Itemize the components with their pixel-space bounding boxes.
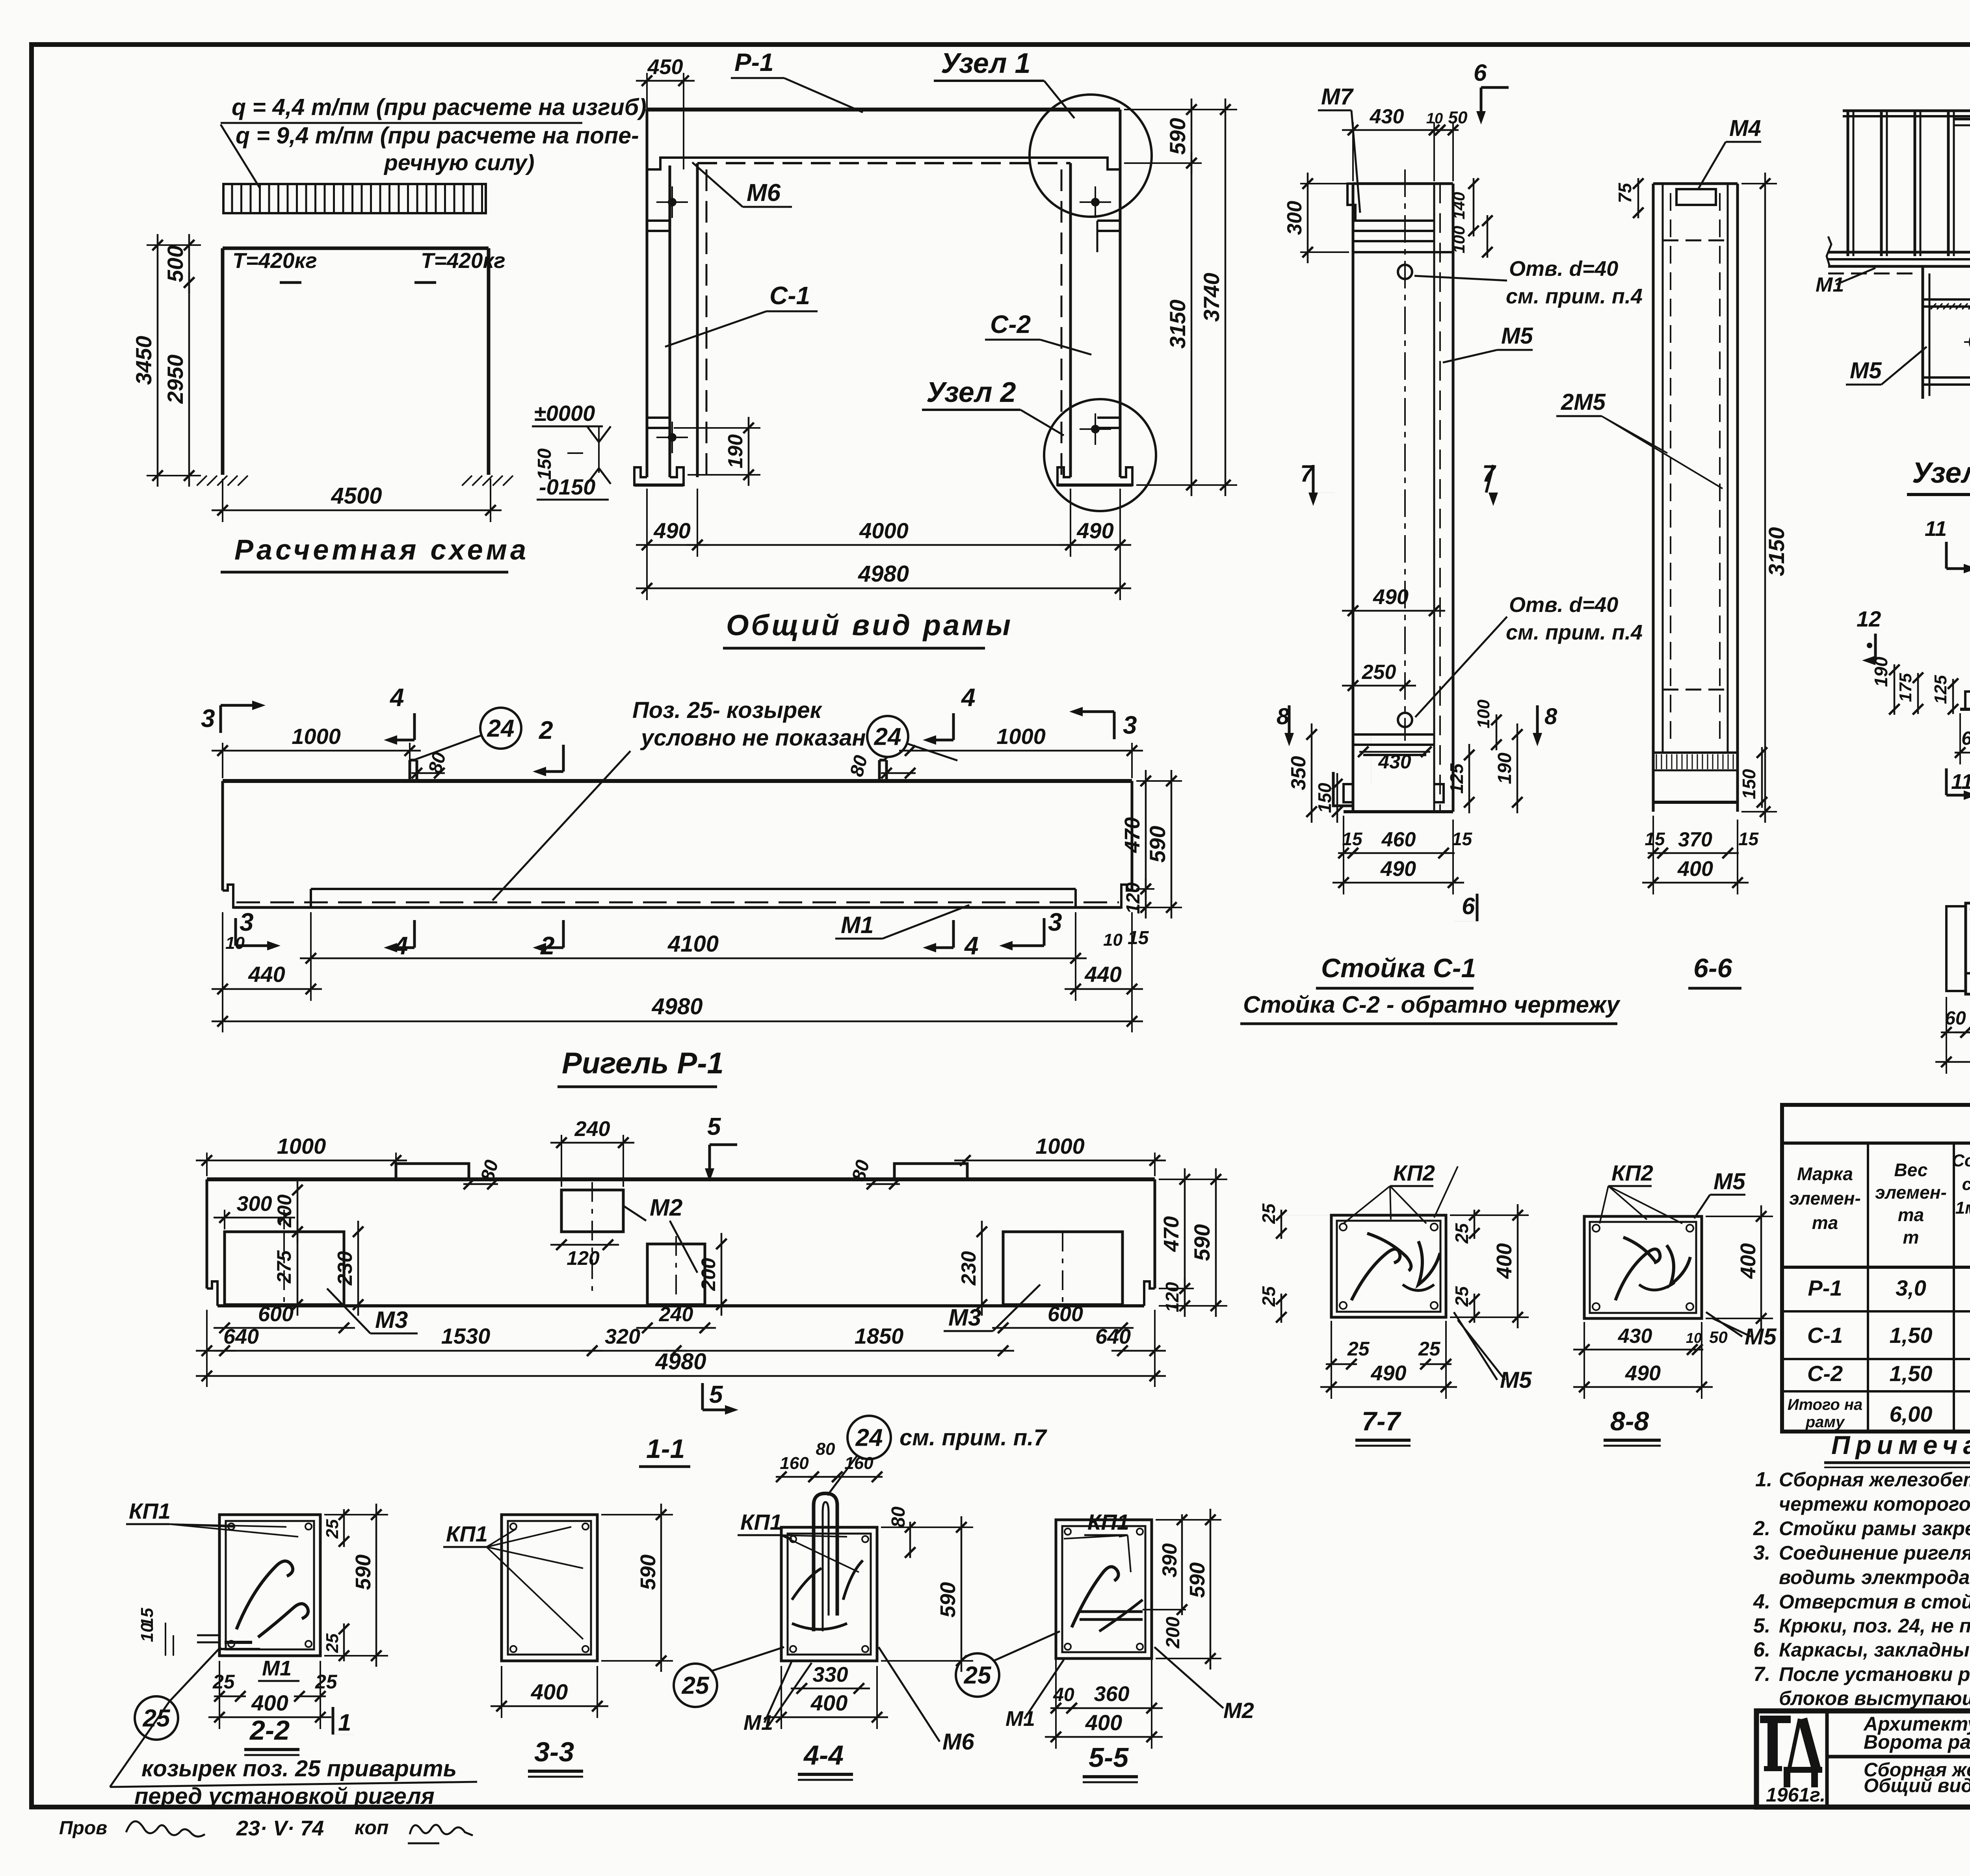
svg-text:60: 60 — [1961, 728, 1970, 749]
svg-text:160: 160 — [844, 1454, 873, 1473]
svg-text:М3: М3 — [375, 1307, 408, 1333]
svg-text:590: 590 — [351, 1554, 375, 1590]
svg-text:М1: М1 — [841, 912, 873, 938]
svg-text:80: 80 — [816, 1439, 835, 1459]
svg-text:490: 490 — [1625, 1361, 1661, 1385]
svg-text:400: 400 — [1085, 1710, 1122, 1735]
svg-text:6,00: 6,00 — [1890, 1402, 1933, 1426]
svg-text:640: 640 — [1095, 1325, 1131, 1348]
svg-text:т: т — [1903, 1227, 1919, 1248]
svg-text:КП1: КП1 — [740, 1510, 782, 1534]
svg-text:Сборная железобетонная рама: Сборная железобетонная рама проема устан… — [1779, 1469, 1970, 1491]
svg-text:390: 390 — [1158, 1543, 1181, 1578]
svg-text:Примечания: Примечания — [1831, 1430, 1970, 1460]
svg-text:М1: М1 — [262, 1657, 292, 1680]
svg-text:1,50: 1,50 — [1890, 1323, 1933, 1348]
svg-text:430: 430 — [1618, 1325, 1652, 1348]
svg-text:4980: 4980 — [655, 1349, 706, 1374]
svg-text:КП2: КП2 — [1611, 1160, 1653, 1185]
svg-text:8-8: 8-8 — [1610, 1406, 1649, 1436]
svg-text:см. прим. п.4: см. прим. п.4 — [1506, 284, 1643, 308]
svg-text:чертежи которого даются в: чертежи которого даются в составе проект… — [1779, 1493, 1970, 1515]
svg-text:7: 7 — [1482, 460, 1496, 487]
svg-text:200: 200 — [273, 1194, 295, 1228]
svg-text:Пров: Пров — [59, 1818, 107, 1839]
svg-text:2: 2 — [539, 716, 553, 744]
svg-text:4: 4 — [389, 683, 404, 712]
svg-text:6-6: 6-6 — [1693, 953, 1732, 983]
svg-text:590: 590 — [636, 1554, 660, 1590]
svg-text:120: 120 — [567, 1247, 600, 1269]
svg-text:600: 600 — [1048, 1302, 1083, 1326]
svg-text:2.: 2. — [1753, 1517, 1770, 1540]
svg-text:430: 430 — [1378, 751, 1411, 773]
svg-text:490: 490 — [1373, 585, 1409, 609]
svg-text:Содержан.: Содержан. — [1952, 1151, 1970, 1170]
svg-text:1961г.: 1961г. — [1766, 1784, 1825, 1806]
svg-text:24: 24 — [487, 715, 515, 742]
svg-text:С-2: С-2 — [990, 310, 1031, 338]
svg-text:150: 150 — [534, 448, 555, 480]
svg-text:Итого на: Итого на — [1788, 1396, 1863, 1413]
svg-text:430: 430 — [1370, 105, 1404, 128]
svg-text:Крюки, поз. 24, не предназнач: Крюки, поз. 24, не предназначены для уст… — [1779, 1615, 1970, 1637]
svg-text:раму: раму — [1805, 1413, 1845, 1431]
svg-text:500: 500 — [163, 245, 188, 282]
svg-text:400: 400 — [1492, 1243, 1516, 1279]
svg-text:1-1: 1-1 — [646, 1434, 685, 1464]
svg-text:5.: 5. — [1753, 1614, 1770, 1637]
svg-text:25: 25 — [315, 1671, 338, 1693]
svg-text:М7: М7 — [1321, 84, 1354, 110]
svg-text:230: 230 — [334, 1251, 357, 1286]
svg-text:Стойки рамы закрепляются при: Стойки рамы закрепляются при помощи анке… — [1779, 1517, 1970, 1539]
svg-text:240: 240 — [574, 1117, 610, 1141]
svg-text:М3: М3 — [948, 1304, 981, 1331]
svg-text:Р-1: Р-1 — [734, 48, 774, 76]
svg-text:250: 250 — [1362, 661, 1396, 684]
svg-text:М2: М2 — [650, 1194, 682, 1221]
svg-text:Расчетная схема: Расчетная схема — [234, 534, 529, 566]
svg-text:q = 9,4 т/пм (при расчете на п: q = 9,4 т/пм (при расчете на попе- — [236, 123, 639, 149]
svg-text:25: 25 — [1258, 1203, 1279, 1224]
svg-text:6: 6 — [1474, 59, 1487, 86]
svg-text:элемен-: элемен- — [1789, 1188, 1861, 1209]
svg-text:см. прим. п.4: см. прим. п.4 — [1506, 621, 1643, 644]
svg-text:Т=420кг: Т=420кг — [421, 248, 506, 273]
svg-text:15: 15 — [1738, 829, 1759, 849]
svg-text:перед установкой ригеля: перед установкой ригеля — [134, 1783, 435, 1809]
svg-text:Узел 2: Узел 2 — [926, 377, 1016, 408]
svg-text:М5: М5 — [1714, 1169, 1745, 1194]
svg-text:360: 360 — [1094, 1682, 1129, 1706]
svg-text:75: 75 — [1615, 182, 1635, 203]
svg-text:Отв. d=40: Отв. d=40 — [1509, 257, 1618, 281]
svg-text:6: 6 — [1462, 893, 1475, 919]
svg-text:3.: 3. — [1753, 1541, 1770, 1564]
svg-text:8: 8 — [1277, 704, 1290, 729]
svg-text:М5: М5 — [1501, 323, 1533, 349]
svg-text:175: 175 — [1896, 673, 1915, 702]
svg-text:25: 25 — [1347, 1338, 1370, 1360]
svg-text:Каркасы, закладные детали и: Каркасы, закладные детали и спецификация… — [1779, 1639, 1970, 1661]
svg-text:150: 150 — [1739, 769, 1759, 799]
svg-text:1000: 1000 — [292, 724, 341, 749]
svg-text:3740: 3740 — [1199, 273, 1224, 322]
svg-text:3450: 3450 — [131, 336, 156, 385]
svg-text:3150: 3150 — [1165, 299, 1190, 349]
svg-text:15: 15 — [1342, 829, 1363, 849]
svg-text:440: 440 — [248, 962, 285, 987]
svg-text:50: 50 — [1709, 1328, 1728, 1346]
svg-text:1: 1 — [338, 1709, 351, 1736]
svg-text:11: 11 — [1951, 770, 1970, 794]
svg-text:та: та — [1898, 1205, 1924, 1225]
svg-text:М6: М6 — [942, 1729, 974, 1755]
svg-text:330: 330 — [812, 1663, 848, 1686]
svg-text:300: 300 — [236, 1192, 272, 1216]
svg-text:7-7: 7-7 — [1362, 1406, 1401, 1436]
svg-text:24: 24 — [874, 723, 901, 751]
svg-text:q = 4,4 т/пм (при расчете на и: q = 4,4 т/пм (при расчете на изгиб) — [232, 94, 647, 120]
svg-text:15: 15 — [1128, 928, 1149, 948]
svg-text:11: 11 — [1925, 517, 1947, 541]
svg-text:125: 125 — [1446, 763, 1467, 794]
svg-text:1000: 1000 — [996, 724, 1046, 749]
svg-text:7: 7 — [1300, 460, 1314, 487]
svg-text:1850: 1850 — [855, 1324, 904, 1348]
svg-text:400: 400 — [810, 1690, 847, 1715]
svg-text:Вес: Вес — [1894, 1160, 1928, 1180]
svg-text:М4: М4 — [1729, 115, 1761, 141]
svg-text:3: 3 — [1048, 908, 1062, 936]
svg-text:600: 600 — [258, 1302, 294, 1326]
svg-text:370: 370 — [1678, 828, 1712, 851]
svg-text:12: 12 — [1857, 606, 1881, 631]
svg-text:водить электродами типа Э-42: водить электродами типа Э-42 Толщину сва… — [1779, 1566, 1970, 1588]
svg-text:После установки ригеля Р-1: После установки ригеля Р-1 в проектное п… — [1779, 1663, 1970, 1685]
svg-text:150: 150 — [1314, 783, 1335, 813]
svg-text:2М5: 2М5 — [1561, 389, 1606, 415]
svg-text:120: 120 — [1123, 882, 1144, 914]
svg-text:4980: 4980 — [651, 994, 703, 1019]
svg-text:190: 190 — [1494, 753, 1515, 784]
svg-text:2950: 2950 — [163, 355, 188, 404]
svg-text:Стойка С-2 - обратно чертежу: Стойка С-2 - обратно чертежу — [1243, 991, 1621, 1018]
svg-text:Марка: Марка — [1797, 1164, 1853, 1184]
svg-text:10: 10 — [225, 933, 245, 953]
svg-text:Ригель Р-1: Ригель Р-1 — [562, 1047, 724, 1080]
svg-text:300: 300 — [1283, 201, 1306, 235]
svg-text:Общий вид рамы Детали.: Общий вид рамы Детали. — [1864, 1775, 1970, 1796]
svg-text:60: 60 — [1945, 1008, 1966, 1029]
svg-text:590: 590 — [1186, 1562, 1209, 1598]
svg-text:коп: коп — [355, 1817, 388, 1839]
svg-text:590: 590 — [1145, 826, 1170, 863]
svg-text:490: 490 — [1076, 518, 1113, 543]
svg-text:козырек поз. 25 приварить: козырек поз. 25 приварить — [141, 1756, 457, 1781]
svg-text:1000: 1000 — [277, 1134, 326, 1158]
svg-text:490: 490 — [653, 518, 690, 543]
svg-text:Отв. d=40: Отв. d=40 — [1509, 593, 1618, 617]
svg-text:450: 450 — [647, 55, 683, 79]
svg-text:640: 640 — [223, 1325, 259, 1348]
svg-text:Ворота распашные 4×3м: Ворота распашные 4×3м — [1864, 1731, 1970, 1753]
svg-text:590: 590 — [1189, 1224, 1214, 1261]
svg-text:125: 125 — [1931, 675, 1950, 704]
svg-text:4100: 4100 — [667, 931, 719, 957]
svg-text:элемен-: элемен- — [1875, 1182, 1947, 1203]
svg-text:1.: 1. — [1755, 1468, 1772, 1491]
svg-text:10: 10 — [138, 1623, 157, 1642]
svg-text:10: 10 — [1686, 1330, 1702, 1346]
svg-text:200: 200 — [697, 1258, 719, 1291]
svg-text:470: 470 — [1121, 817, 1144, 853]
svg-text:25: 25 — [323, 1633, 342, 1653]
svg-text:4: 4 — [964, 931, 979, 960]
svg-text:4500: 4500 — [331, 483, 382, 509]
svg-text:590: 590 — [936, 1582, 960, 1618]
svg-text:КП1: КП1 — [446, 1521, 488, 1546]
svg-text:25: 25 — [1418, 1338, 1441, 1360]
svg-text:КП1: КП1 — [1087, 1510, 1129, 1534]
svg-text:25: 25 — [682, 1672, 710, 1699]
svg-text:3: 3 — [240, 908, 254, 936]
svg-text:5: 5 — [707, 1113, 721, 1140]
svg-text:400: 400 — [1736, 1243, 1760, 1279]
svg-text:490: 490 — [1380, 857, 1416, 881]
svg-text:1530: 1530 — [441, 1324, 491, 1348]
svg-text:Узел 1: Узел 1 — [1912, 456, 1970, 489]
svg-text:Общий вид рамы: Общий вид рамы — [726, 609, 1013, 641]
svg-text:8: 8 — [1544, 704, 1557, 729]
svg-text:230: 230 — [957, 1251, 980, 1286]
svg-text:140: 140 — [1450, 192, 1468, 219]
svg-text:6.: 6. — [1753, 1638, 1770, 1661]
svg-text:1м³ бето-: 1м³ бето- — [1955, 1198, 1970, 1218]
svg-text:350: 350 — [1287, 756, 1310, 790]
svg-text:М1: М1 — [1816, 273, 1844, 296]
svg-text:4-4: 4-4 — [803, 1740, 844, 1770]
svg-text:400: 400 — [251, 1690, 288, 1715]
svg-text:470: 470 — [1160, 1216, 1183, 1252]
svg-text:23· V· 74: 23· V· 74 — [236, 1817, 324, 1840]
svg-text:25: 25 — [1451, 1223, 1472, 1244]
svg-text:КП2: КП2 — [1393, 1160, 1435, 1185]
svg-text:120: 120 — [1162, 1282, 1182, 1312]
svg-text:240: 240 — [659, 1303, 693, 1326]
svg-text:Т=420кг: Т=420кг — [232, 248, 317, 273]
svg-text:440: 440 — [1084, 962, 1121, 987]
svg-text:1000: 1000 — [1035, 1134, 1085, 1158]
svg-text:24: 24 — [855, 1424, 883, 1452]
svg-text:3,0: 3,0 — [1896, 1275, 1926, 1300]
svg-text:7.: 7. — [1753, 1663, 1770, 1686]
svg-text:4980: 4980 — [858, 561, 909, 587]
svg-text:5-5: 5-5 — [1089, 1742, 1129, 1773]
svg-text:50: 50 — [1448, 108, 1468, 127]
svg-text:25: 25 — [964, 1662, 992, 1689]
svg-text:3150: 3150 — [1764, 527, 1789, 576]
svg-text:4000: 4000 — [859, 518, 909, 543]
svg-text:15: 15 — [1645, 829, 1665, 849]
svg-text:10: 10 — [1103, 930, 1123, 950]
svg-text:Отверстия в стойках d=40мм: Отверстия в стойках d=40мм даны для стро… — [1779, 1591, 1970, 1613]
svg-text:490: 490 — [1370, 1361, 1406, 1385]
svg-text:Соединение ригеля со стойкам: Соединение ригеля со стойками осуществля… — [1779, 1542, 1970, 1564]
svg-text:25: 25 — [212, 1671, 235, 1693]
svg-text:М2: М2 — [1223, 1698, 1254, 1723]
svg-text:3-3: 3-3 — [534, 1737, 574, 1767]
svg-text:Поз. 25- козырек: Поз. 25- козырек — [632, 697, 823, 723]
svg-text:Стойка С-1: Стойка С-1 — [1321, 953, 1476, 983]
svg-text:5: 5 — [709, 1381, 723, 1408]
svg-text:С-1: С-1 — [1807, 1323, 1843, 1348]
svg-text:та: та — [1812, 1212, 1838, 1233]
svg-text:320: 320 — [605, 1325, 640, 1348]
svg-text:4: 4 — [961, 683, 976, 712]
svg-text:25: 25 — [323, 1519, 342, 1539]
svg-text:460: 460 — [1381, 828, 1416, 851]
svg-text:200: 200 — [1163, 1617, 1184, 1649]
svg-text:М5: М5 — [1850, 358, 1882, 383]
svg-text:80: 80 — [888, 1506, 909, 1528]
svg-text:КП1: КП1 — [129, 1499, 171, 1523]
svg-text:М6: М6 — [747, 179, 781, 206]
svg-text:стали в: стали в — [1962, 1175, 1970, 1194]
svg-text:4.: 4. — [1753, 1590, 1770, 1613]
svg-text:400: 400 — [1677, 857, 1713, 881]
svg-text:100: 100 — [1474, 699, 1493, 729]
svg-text:15: 15 — [1452, 829, 1473, 849]
svg-text:2-2: 2-2 — [249, 1715, 290, 1746]
svg-text:см. прим. п.7: см. прим. п.7 — [900, 1425, 1047, 1450]
svg-text:блоков выступающую часть кр: блоков выступающую часть крюков (поз. 24… — [1779, 1687, 1970, 1709]
svg-text:1,50: 1,50 — [1890, 1361, 1933, 1386]
svg-text:3: 3 — [1123, 711, 1137, 739]
svg-text:3: 3 — [201, 704, 215, 733]
svg-text:Р-1: Р-1 — [1808, 1275, 1842, 1300]
svg-text:С-1: С-1 — [769, 281, 810, 310]
svg-text:±0000: ±0000 — [534, 401, 595, 426]
svg-text:275: 275 — [273, 1250, 295, 1284]
svg-text:С-2: С-2 — [1807, 1361, 1843, 1386]
svg-text:Узел 1: Узел 1 — [941, 48, 1031, 79]
svg-text:190: 190 — [724, 434, 747, 469]
svg-text:590: 590 — [1165, 118, 1190, 154]
svg-text:400: 400 — [531, 1679, 568, 1704]
svg-text:речную силу): речную силу) — [383, 150, 535, 175]
svg-text:190: 190 — [1871, 656, 1891, 687]
svg-text:160: 160 — [780, 1454, 809, 1473]
svg-text:условно не показан: условно не показан — [640, 725, 866, 751]
svg-text:100: 100 — [1450, 226, 1468, 253]
